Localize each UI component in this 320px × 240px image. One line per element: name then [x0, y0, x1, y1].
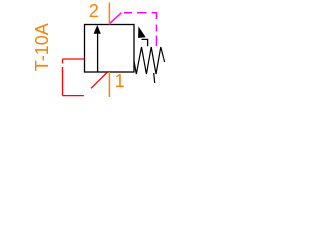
- svg-text:1: 1: [115, 71, 125, 91]
- svg-text:2: 2: [89, 1, 99, 21]
- svg-text:T-10A: T-10A: [32, 23, 52, 71]
